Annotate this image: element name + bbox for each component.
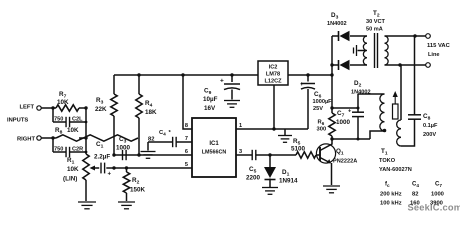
svg-text:(LIN): (LIN) xyxy=(63,176,77,183)
svg-text:150K: 150K xyxy=(130,187,146,194)
svg-text:100 kHz: 100 kHz xyxy=(380,201,402,207)
capacitor C3 1000pF xyxy=(123,150,127,160)
terminal RIGHT input xyxy=(37,136,41,140)
svg-text:5100: 5100 xyxy=(291,146,306,153)
wire collector node line xyxy=(332,138,370,141)
wire pin 1 ground line xyxy=(236,128,308,130)
terminal 115VAC top xyxy=(426,34,431,39)
pin 5 label xyxy=(185,162,188,168)
input label INPUTS xyxy=(7,118,28,124)
svg-text:2200: 2200 xyxy=(246,175,261,182)
svg-text:3900: 3900 xyxy=(430,201,443,207)
plus sign C1 xyxy=(108,172,112,178)
label R3 xyxy=(95,97,107,113)
svg-text:30 VCT: 30 VCT xyxy=(366,19,386,25)
label R5 xyxy=(291,138,306,153)
plus sign C7 xyxy=(348,109,352,115)
svg-text:TOKO: TOKO xyxy=(379,158,396,164)
svg-text:25V: 25V xyxy=(313,106,323,112)
svg-text:+: + xyxy=(300,82,304,88)
wire pin 5 line xyxy=(106,166,192,169)
svg-text:Line: Line xyxy=(428,52,440,58)
diode D2 1N4002 xyxy=(332,60,367,70)
capacitor C9 10uF 16V xyxy=(224,75,240,100)
resistor R2 150K xyxy=(123,168,129,201)
pin 7 label xyxy=(185,136,188,142)
svg-text:750: 750 xyxy=(54,147,63,153)
svg-text:3: 3 xyxy=(239,149,242,155)
label R6 xyxy=(317,120,327,133)
svg-text:5: 5 xyxy=(185,162,188,168)
svg-text:750: 750 xyxy=(54,117,63,123)
wire +12V rail from regulator xyxy=(114,73,258,76)
svg-text:1000µF: 1000µF xyxy=(313,99,333,105)
svg-text:1: 1 xyxy=(239,123,242,129)
svg-text:200 kHz: 200 kHz xyxy=(380,192,402,198)
svg-text:160: 160 xyxy=(410,201,420,207)
transformer T2 primary winding xyxy=(385,36,389,65)
svg-text:82: 82 xyxy=(148,137,154,143)
ground under C9 xyxy=(224,101,240,108)
label 115 VAC Line xyxy=(427,43,451,58)
ground under D1 xyxy=(262,188,278,195)
svg-text:82: 82 xyxy=(412,192,418,198)
svg-text:22K: 22K xyxy=(95,106,107,113)
svg-text:R6: R6 xyxy=(318,120,325,127)
op-amp/VCO IC1 LM566CN box xyxy=(192,118,236,177)
capacitor C4 82pF on pin 7 xyxy=(148,137,192,151)
svg-text:18K: 18K xyxy=(145,109,157,116)
svg-text:C2L: C2L xyxy=(72,117,83,123)
transformer T1 secondary winding xyxy=(397,120,401,146)
label D3 xyxy=(327,12,347,27)
wire T1 secondary bottom to C8 xyxy=(401,119,415,146)
ground at C4 xyxy=(141,152,156,159)
resistor R7 10K xyxy=(56,105,86,111)
input label LEFT xyxy=(20,105,35,111)
svg-text:2.2µF: 2.2µF xyxy=(94,154,110,161)
wire T1 secondary top to line xyxy=(400,65,402,120)
T2 center tap with chassis ground xyxy=(354,45,366,56)
svg-text:6: 6 xyxy=(185,149,188,155)
label C4 xyxy=(159,130,172,137)
transformer T2 core xyxy=(375,33,378,68)
terminal LEFT input xyxy=(37,106,41,110)
capacitor C7 1000pF xyxy=(352,112,364,116)
T1 tuning slug xyxy=(393,91,399,119)
label R4 xyxy=(145,100,157,116)
wire IC2 input line xyxy=(288,73,334,76)
svg-text:300: 300 xyxy=(317,127,327,133)
label R1 xyxy=(63,157,79,183)
pin 8 label xyxy=(185,123,188,129)
terminal 115VAC bottom xyxy=(426,63,431,68)
table row 200kHz xyxy=(380,192,444,198)
label C6 xyxy=(313,91,333,112)
label R7 xyxy=(57,91,69,106)
pin 8 wire to rail xyxy=(183,75,192,129)
resistor R6 300 xyxy=(329,113,335,136)
potentiometer R1 10K LIN xyxy=(83,154,89,201)
svg-text:C4: C4 xyxy=(412,182,419,189)
capacitor C1 2.2uF xyxy=(101,163,105,174)
svg-text:C4: C4 xyxy=(159,130,166,137)
wire IC2 ground pin down xyxy=(272,85,275,131)
svg-text:10K: 10K xyxy=(67,127,79,134)
resistor R3 22K xyxy=(111,75,117,155)
svg-text:10K: 10K xyxy=(57,99,69,106)
capacitor C6 1000uF 25V xyxy=(301,75,315,129)
diode D1 1N914 xyxy=(264,155,276,187)
transformer T2 secondary winding xyxy=(363,36,367,65)
svg-text:L12CZ: L12CZ xyxy=(264,79,282,85)
wire T2 primary bottom to line terminal xyxy=(385,63,426,66)
wire RIGHT input to R8 xyxy=(41,136,56,139)
label C7 xyxy=(336,110,351,126)
label D2 xyxy=(351,80,371,96)
svg-text:IC1: IC1 xyxy=(209,141,219,147)
label C2R xyxy=(54,147,83,153)
svg-text:IC2: IC2 xyxy=(269,65,278,71)
wire C5 to R5 xyxy=(256,153,296,156)
capacitor C2L 750pF parallel branch xyxy=(53,108,87,127)
table header fc C4 C7 xyxy=(385,182,442,189)
label C5 xyxy=(246,166,261,182)
svg-text:115 VAC: 115 VAC xyxy=(427,43,451,49)
pin 6 label xyxy=(185,149,188,155)
wire pin 6 line xyxy=(112,153,192,156)
pin 3 label xyxy=(239,149,242,155)
svg-text:LM78: LM78 xyxy=(266,72,280,78)
ground under Q1 emitter xyxy=(323,186,340,193)
svg-text:50 mA: 50 mA xyxy=(366,27,383,33)
capacitor C5 2200pF xyxy=(252,150,256,160)
svg-text:PN2222A: PN2222A xyxy=(333,159,357,165)
ground under R2 xyxy=(118,202,135,209)
svg-text:+: + xyxy=(108,172,112,178)
input label RIGHT xyxy=(17,137,35,143)
transistor Q1 PN2222A xyxy=(316,139,335,185)
wire T2 primary top to line terminal xyxy=(385,34,426,37)
transformer T1 primary winding xyxy=(380,94,385,131)
svg-text:YAN-60027N: YAN-60027N xyxy=(379,167,412,173)
diode D3 1N4002 xyxy=(332,31,367,41)
svg-text:7: 7 xyxy=(185,136,188,142)
wire C7 bottom to collector line xyxy=(357,117,359,139)
label C8 xyxy=(423,113,438,138)
svg-text:C2R: C2R xyxy=(72,147,83,153)
wire T1 primary bottom xyxy=(370,129,386,139)
svg-text:fc: fc xyxy=(385,182,390,189)
wire pin 3 to C5 xyxy=(236,154,252,156)
svg-text:1000: 1000 xyxy=(116,145,131,152)
svg-text:+: + xyxy=(220,78,224,85)
regulator IC2 LM78L12CZ box xyxy=(258,61,288,85)
svg-text:C7: C7 xyxy=(435,182,442,189)
wire DC bus vertical xyxy=(330,36,333,141)
svg-text:LEFT: LEFT xyxy=(20,105,35,111)
label C9 xyxy=(203,88,218,113)
svg-text:LM566CN: LM566CN xyxy=(202,150,227,156)
svg-text:INPUTS: INPUTS xyxy=(7,118,28,124)
svg-text:1000: 1000 xyxy=(431,192,444,198)
wire LEFT input to R7 xyxy=(41,106,56,109)
svg-text:10µF: 10µF xyxy=(203,96,218,103)
label 82 xyxy=(148,137,154,143)
resistor R8 10K xyxy=(56,135,138,141)
label R8 xyxy=(55,127,79,136)
label T2 xyxy=(366,10,386,33)
svg-text:RIGHT: RIGHT xyxy=(17,137,35,143)
ground on pin 1 line xyxy=(278,129,292,142)
label C1 xyxy=(94,141,110,161)
svg-text:0.1µF: 0.1µF xyxy=(423,123,438,129)
plus sign C9 xyxy=(220,78,224,85)
watermark SeekIC.com xyxy=(408,203,460,213)
label C3 xyxy=(116,136,131,152)
svg-text:1N4002: 1N4002 xyxy=(327,21,347,27)
label R2 xyxy=(130,177,146,194)
resistor R5 5100 xyxy=(296,152,320,158)
wire R7/R8 junction down to R1 xyxy=(84,106,87,154)
label Q1 xyxy=(333,148,357,165)
pin 1 label xyxy=(239,123,242,129)
svg-text:200V: 200V xyxy=(423,132,436,138)
capacitor C8 0.1uF 200V xyxy=(408,36,421,119)
resistor R4 18K xyxy=(136,75,142,155)
svg-text:10K: 10K xyxy=(67,166,79,173)
label D1 xyxy=(279,169,298,185)
table row 100kHz xyxy=(380,201,443,207)
label C2L xyxy=(54,117,83,123)
svg-text:16V: 16V xyxy=(204,105,216,112)
capacitor C2R 750pF parallel branch xyxy=(53,138,87,157)
svg-text:1N914: 1N914 xyxy=(279,178,298,185)
wire C7 branch vertical top xyxy=(358,94,385,112)
R1 wiper arrow xyxy=(90,166,100,171)
svg-text:8: 8 xyxy=(185,123,188,129)
svg-text:1000: 1000 xyxy=(336,119,351,126)
plus sign C6 xyxy=(300,82,304,88)
wire tank feed from bus xyxy=(332,107,360,110)
label T1 xyxy=(379,148,412,173)
ground under R1 xyxy=(78,202,96,209)
